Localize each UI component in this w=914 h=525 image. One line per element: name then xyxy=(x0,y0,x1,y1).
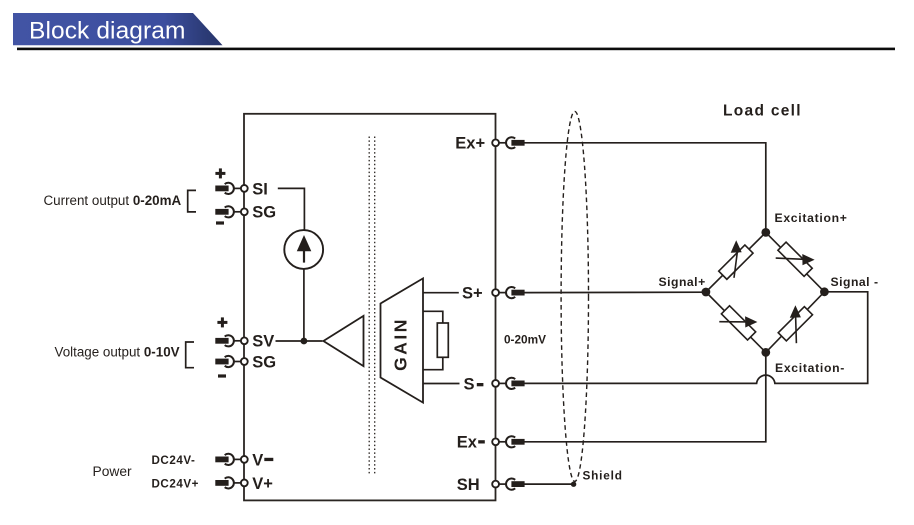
svg-text:S+: S+ xyxy=(462,285,483,303)
svg-text:Excitation-: Excitation- xyxy=(775,361,845,375)
node Excitation- xyxy=(761,348,770,357)
terminal S- plug (right) xyxy=(492,378,524,389)
wire SV to amplifier xyxy=(276,340,323,342)
bracket (current output) xyxy=(188,190,196,212)
node Signal- xyxy=(820,287,829,296)
svg-text:V+: V+ xyxy=(252,475,273,493)
svg-text:Ex: Ex xyxy=(457,434,478,452)
strain gauge top-left xyxy=(719,240,753,279)
op-amp buffer A1 xyxy=(323,316,363,366)
bridge edge bottom-right xyxy=(766,292,825,353)
node Excitation+ xyxy=(761,228,770,237)
isolation barrier dashed line left xyxy=(368,137,370,475)
svg-text:Current output 0-20mA: Current output 0-20mA xyxy=(44,193,182,208)
module box U1 xyxy=(244,114,496,501)
svg-text:0-20mV: 0-20mV xyxy=(504,333,546,347)
terminal label Ex- xyxy=(457,434,485,452)
strain gauge bottom-right xyxy=(778,305,812,343)
svg-text:Signal -: Signal - xyxy=(831,275,879,289)
bridge edge top-left xyxy=(706,232,766,292)
svg-text:Voltage output 0-10V: Voltage output 0-10V xyxy=(55,344,180,359)
cable shield ellipse xyxy=(561,111,588,481)
polarity plus (current output) xyxy=(215,168,225,178)
svg-text:SG: SG xyxy=(252,204,276,222)
wire current source to SV node xyxy=(303,269,305,341)
svg-text:Signal+: Signal+ xyxy=(659,275,706,289)
svg-text:SG: SG xyxy=(252,353,276,371)
feedback resistor R1 xyxy=(423,311,448,369)
terminal SV plug (left) xyxy=(215,335,247,346)
shield connection dot xyxy=(571,482,576,487)
svg-text:Ex+: Ex+ xyxy=(455,135,485,153)
wire gain to S+ xyxy=(423,292,459,294)
svg-text:Excitation+: Excitation+ xyxy=(775,211,848,225)
node SV junction xyxy=(301,338,308,345)
isolation barrier dashed line right xyxy=(374,137,376,475)
wire S- to Signal- node (with hop) xyxy=(524,292,867,384)
terminal SG plug (left) xyxy=(215,356,247,367)
svg-text:SH: SH xyxy=(457,476,480,494)
svg-text:S: S xyxy=(464,375,475,393)
wire Ex+ to load cell top xyxy=(524,143,765,232)
wire SH to shield xyxy=(524,483,573,485)
polarity minus (voltage output) xyxy=(218,374,226,377)
wire gain to S- xyxy=(423,383,460,385)
svg-text:GAIN: GAIN xyxy=(391,317,411,371)
svg-text:SI: SI xyxy=(252,180,268,198)
terminal SI plug (left) xyxy=(215,183,247,194)
wire Ex- to load cell bottom xyxy=(524,354,765,442)
svg-text:DC24V-: DC24V- xyxy=(152,454,196,467)
bridge edge bottom-left xyxy=(706,292,766,352)
terminal V- plug (left) xyxy=(215,454,247,465)
svg-text:Power: Power xyxy=(93,464,133,479)
svg-text:Shield: Shield xyxy=(583,469,623,483)
svg-text:Load cell: Load cell xyxy=(723,103,802,120)
svg-text:DC24V+: DC24V+ xyxy=(152,477,199,490)
terminal SH plug (right) xyxy=(492,478,524,489)
strain gauge bottom-left xyxy=(719,306,757,340)
terminal label V- xyxy=(252,451,273,469)
polarity minus (current output) xyxy=(216,221,224,224)
polarity plus (voltage output) xyxy=(217,317,227,327)
gain block xyxy=(381,278,424,402)
terminal S+ plug (right) xyxy=(492,287,524,298)
current source CS1 xyxy=(284,230,323,269)
wire S+ to Signal+ node xyxy=(524,291,705,293)
terminal label S- xyxy=(464,375,484,393)
title banner xyxy=(13,13,223,45)
svg-text:V: V xyxy=(252,451,263,469)
wire SI to current source xyxy=(278,188,305,230)
terminal V+ plug (left) xyxy=(215,477,247,488)
bracket (voltage output) xyxy=(186,342,194,368)
bridge edge top-right xyxy=(766,232,825,291)
title underline xyxy=(17,48,895,51)
terminal Ex- plug (right) xyxy=(492,436,524,447)
terminal SG plug (left) xyxy=(215,206,247,217)
strain gauge top-right xyxy=(776,242,815,276)
terminal Ex+ plug (right) xyxy=(492,137,524,148)
svg-text:SV: SV xyxy=(252,333,274,351)
svg-text:Block diagram: Block diagram xyxy=(29,18,186,45)
node Signal+ xyxy=(702,288,711,297)
